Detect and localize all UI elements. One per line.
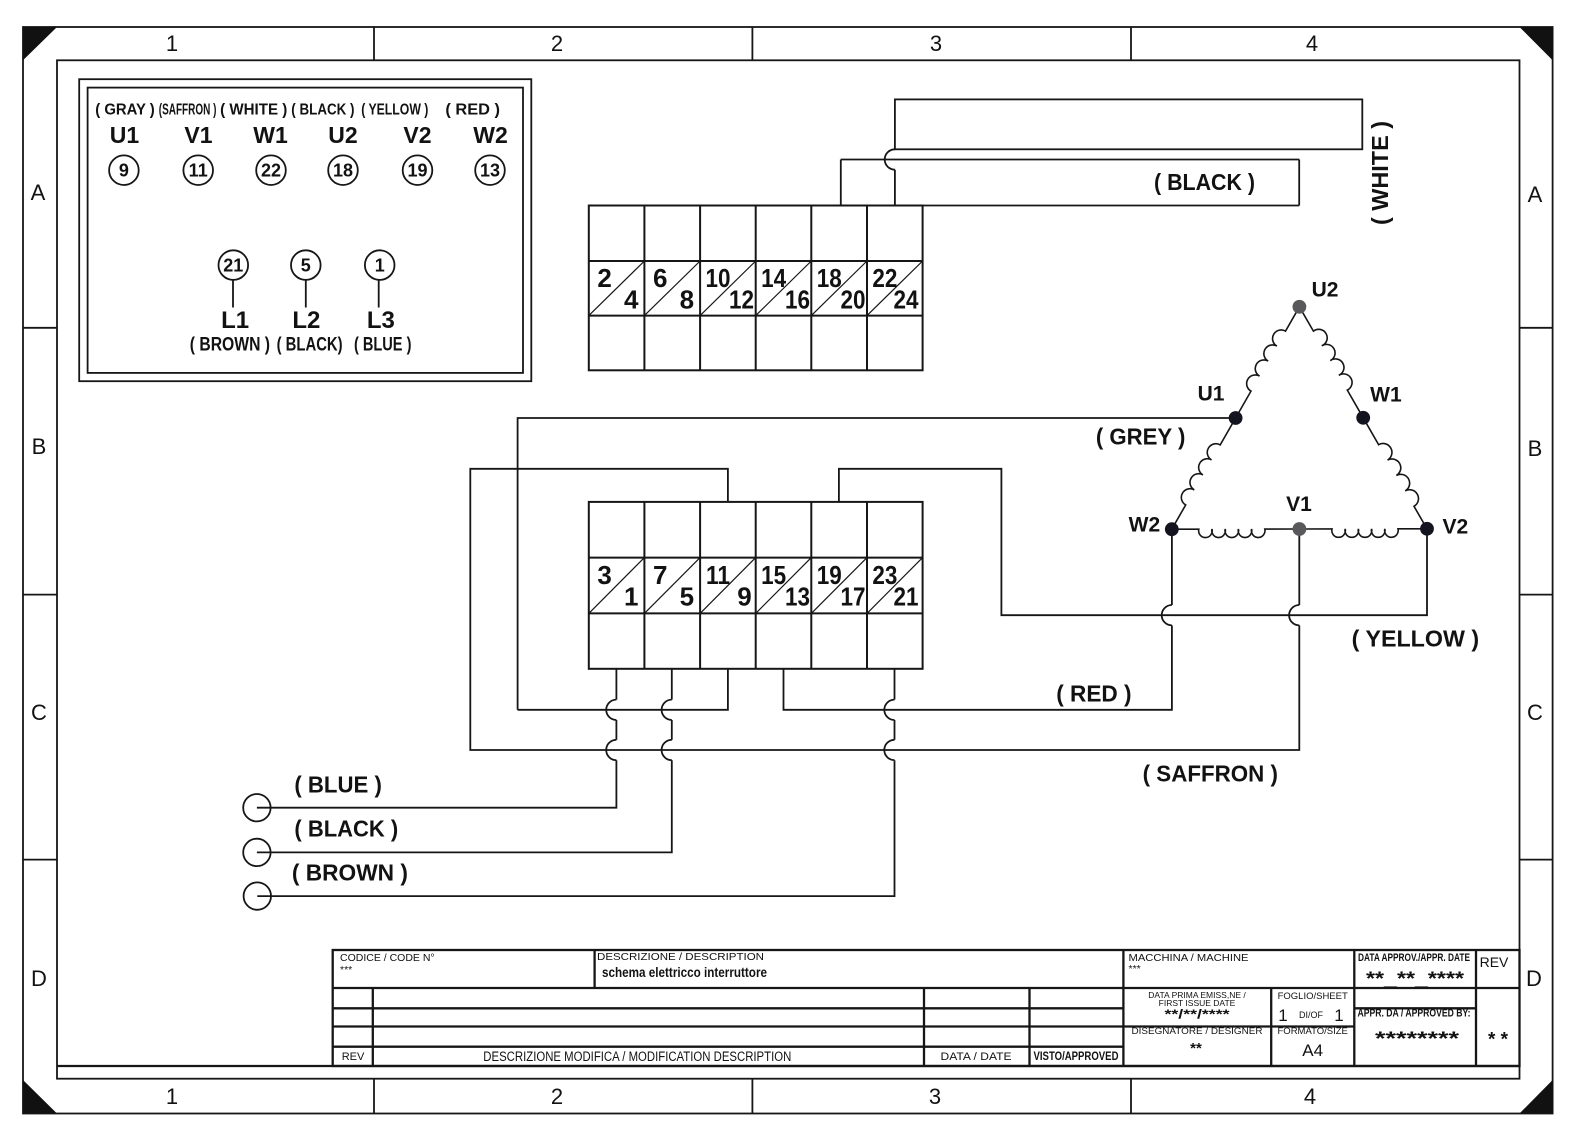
hop brown over saffron — [884, 740, 894, 760]
divider REV right column — [1475, 950, 1477, 1066]
svg-text:W1: W1 — [1370, 384, 1402, 407]
svg-text:V2: V2 — [1442, 515, 1468, 538]
DELTA MOTOR WINDING — [1172, 307, 1427, 538]
node V1 — [1293, 522, 1307, 536]
divider DATA APPROV column — [1353, 950, 1355, 1066]
svg-text:1: 1 — [1334, 1006, 1343, 1025]
svg-text:8: 8 — [680, 285, 694, 315]
svg-text:4: 4 — [624, 285, 639, 315]
svg-text:C: C — [1527, 700, 1543, 725]
terminal circle 9 — [109, 155, 139, 185]
svg-text:( YELLOW ): ( YELLOW ) — [361, 102, 428, 119]
svg-text:**_**_****: **_**_**** — [1366, 969, 1465, 990]
svg-text:W2: W2 — [1129, 513, 1161, 536]
lower strip column lines — [643, 502, 645, 669]
winding V1-V2 — [1299, 529, 1427, 538]
svg-text:**/**/****: **/**/**** — [1165, 1007, 1231, 1022]
winding U2-W1 — [1299, 307, 1363, 418]
svg-text:V2: V2 — [403, 122, 431, 148]
svg-text:MACCHINA / MACHINE: MACCHINA / MACHINE — [1129, 952, 1249, 964]
upper strip column lines — [643, 206, 645, 371]
svg-text:(SAFFRON ): (SAFFRON ) — [159, 102, 217, 119]
wire saffron: V1 down, hop, left, up, left, to lower strip col3 top — [470, 469, 1299, 750]
svg-text:( BLACK ): ( BLACK ) — [294, 816, 398, 842]
svg-text:L2: L2 — [292, 307, 320, 334]
hop blue over saffron — [606, 740, 616, 760]
terminal circle 5 — [291, 250, 321, 280]
svg-text:REV: REV — [1480, 954, 1509, 970]
svg-text:APPR. DA / APPROVED BY:: APPR. DA / APPROVED BY: — [1358, 1008, 1471, 1020]
title block narrow row lines — [333, 1007, 1124, 1009]
hop brown over red — [884, 700, 894, 720]
open terminal circle blue — [243, 794, 270, 821]
title block bottom strip line — [57, 1065, 1520, 1067]
divider DATA/DATE column — [923, 988, 925, 1066]
UPPER TERMINAL STRIP — [589, 206, 923, 371]
open terminal circle black — [243, 839, 270, 866]
svg-text:( BROWN ): ( BROWN ) — [190, 335, 270, 356]
svg-text:7: 7 — [653, 560, 667, 590]
wire black: circle to lower strip col2 bottom with hops — [257, 760, 672, 852]
svg-text:5: 5 — [301, 256, 311, 276]
zone divider ticks bottom band — [374, 1079, 1131, 1114]
svg-text:C: C — [31, 700, 47, 725]
hop black over saffron — [662, 740, 672, 760]
lower strip row lines — [589, 557, 923, 559]
svg-text:CODICE / CODE N°: CODICE / CODE N° — [340, 952, 435, 964]
TITLEBLOCK — [57, 950, 1520, 1066]
corner triangle bottom-right — [1520, 1080, 1553, 1114]
wire yellow: lower strip col5 top, up, right, down, right to V2 — [839, 469, 1427, 615]
node U1 — [1229, 411, 1243, 425]
svg-text:13: 13 — [480, 161, 500, 181]
stem L3 — [378, 280, 380, 308]
wire grey: U1 left then down — [518, 418, 1236, 710]
winding W2-U1 — [1172, 418, 1236, 529]
title block row line under CODICE row — [333, 987, 1520, 989]
hop white wire over black cable edge — [885, 149, 895, 169]
winding W1-V2 — [1363, 418, 1427, 529]
winding W2-V1 — [1172, 529, 1300, 538]
hop black over red — [662, 700, 672, 720]
svg-text:( GREY ): ( GREY ) — [1096, 424, 1186, 450]
svg-text:11: 11 — [189, 161, 208, 181]
svg-text:U2: U2 — [1312, 279, 1339, 302]
svg-text:18: 18 — [333, 161, 353, 181]
black cable loop: top edge — [841, 159, 1299, 161]
corner triangle top-right — [1520, 27, 1553, 60]
svg-text:( BLACK ): ( BLACK ) — [291, 102, 354, 119]
svg-text:A4: A4 — [1302, 1041, 1323, 1060]
svg-text:1: 1 — [166, 31, 178, 56]
svg-text:2: 2 — [551, 31, 563, 56]
svg-text:A: A — [1528, 182, 1543, 207]
divider VISTO column — [1028, 988, 1030, 1066]
svg-text:( WHITE ): ( WHITE ) — [220, 102, 287, 119]
corner triangle bottom-left — [23, 1080, 57, 1114]
divider CODICE | DESCRIZIONE — [593, 950, 595, 988]
zone divider ticks right band — [1520, 328, 1553, 860]
svg-text:U1: U1 — [1198, 383, 1225, 406]
WIRE LABELS — [292, 121, 1479, 885]
legend box inner — [88, 88, 523, 373]
svg-text:18: 18 — [817, 263, 842, 293]
svg-text:V1: V1 — [1286, 493, 1312, 516]
wire brown: circle to lower strip col6 bottom with hops — [257, 760, 894, 896]
corner triangle top-left — [23, 27, 57, 60]
svg-text:( BLACK ): ( BLACK ) — [1154, 169, 1255, 195]
LOWER TERMINAL STRIP — [589, 502, 923, 669]
svg-text:9: 9 — [737, 582, 751, 612]
svg-text:19: 19 — [407, 161, 427, 181]
svg-text:DI/OF: DI/OF — [1299, 1010, 1324, 1020]
svg-text:24: 24 — [894, 285, 919, 315]
divider REV column — [372, 988, 374, 1066]
terminal circle 22 — [256, 155, 286, 185]
divider under DATA APPROV cell — [1354, 1007, 1476, 1009]
divider FOGLIO column — [1270, 988, 1272, 1066]
svg-text:********: ******** — [1375, 1029, 1460, 1050]
svg-text:***: *** — [1129, 963, 1141, 975]
terminal circle 1 — [365, 250, 395, 280]
svg-text:**: ** — [1190, 1040, 1202, 1057]
stem L2 — [305, 280, 307, 308]
svg-text:B: B — [32, 434, 47, 459]
svg-text:DISEGNATORE / DESIGNER: DISEGNATORE / DESIGNER — [1132, 1026, 1263, 1037]
svg-text:( WHITE ): ( WHITE ) — [1367, 121, 1393, 225]
node U2 — [1293, 300, 1307, 314]
svg-text:1: 1 — [1278, 1006, 1287, 1025]
node W1 — [1356, 411, 1370, 425]
svg-text:1: 1 — [375, 256, 385, 276]
svg-text:3: 3 — [597, 560, 611, 590]
svg-text:3: 3 — [929, 1084, 941, 1109]
svg-text:D: D — [1526, 966, 1542, 991]
svg-text:12: 12 — [729, 285, 754, 315]
svg-text:VISTO/APPROVED: VISTO/APPROVED — [1034, 1051, 1119, 1063]
svg-text:16: 16 — [785, 285, 810, 315]
open terminal circle brown — [244, 882, 271, 909]
wire white vertical from upper strip col6 to loop — [894, 170, 896, 206]
svg-text:A: A — [31, 180, 46, 205]
legend color row — [95, 102, 500, 119]
svg-text:REV: REV — [342, 1051, 365, 1063]
svg-text:( RED ): ( RED ) — [445, 102, 500, 119]
svg-text:B: B — [1528, 436, 1543, 461]
black cable loop: left edge (wire from upper strip col5) — [840, 160, 842, 206]
terminal circle 11 — [183, 155, 213, 185]
svg-text:9: 9 — [119, 161, 129, 181]
wire blue: circle to lower strip col1 bottom with hops — [257, 760, 617, 808]
svg-text:DESCRIZIONE MODIFICA / MODIFIC: DESCRIZIONE MODIFICA / MODIFICATION DESC… — [483, 1049, 791, 1064]
svg-text:DESCRIZIONE / DESCRIPTION: DESCRIZIONE / DESCRIPTION — [597, 951, 764, 963]
node W2 — [1165, 522, 1179, 536]
svg-text:W1: W1 — [253, 122, 288, 148]
svg-text:FOGLIO/SHEET: FOGLIO/SHEET — [1278, 991, 1348, 1002]
zone divider ticks top band — [374, 27, 1131, 60]
svg-text:21: 21 — [223, 256, 243, 276]
stem L1 — [232, 280, 234, 308]
svg-text:1: 1 — [166, 1084, 178, 1109]
lower strip outline — [589, 502, 923, 669]
svg-text:11: 11 — [706, 560, 730, 590]
svg-text:15: 15 — [761, 560, 786, 590]
white cable loop rectangle — [895, 99, 1362, 149]
wire red left segment: grey vertical to lower strip col3 bottom — [518, 669, 728, 710]
upper strip row lines — [589, 260, 923, 262]
svg-text:D: D — [31, 966, 47, 991]
svg-text:10: 10 — [706, 263, 731, 293]
black cable loop: bottom edge — [923, 205, 1300, 207]
upper strip diagonals — [589, 261, 645, 316]
svg-text:U2: U2 — [328, 122, 357, 148]
svg-text:( GRAY ): ( GRAY ) — [95, 102, 155, 119]
svg-text:DATA APPROV./APPR. DATE: DATA APPROV./APPR. DATE — [1358, 952, 1470, 964]
terminal circle 13 — [475, 155, 505, 185]
zone divider ticks left band — [23, 328, 57, 860]
svg-text:( BLACK): ( BLACK) — [277, 335, 343, 356]
svg-text:L3: L3 — [367, 307, 395, 334]
svg-text:21: 21 — [894, 582, 919, 612]
svg-text:1: 1 — [624, 582, 638, 612]
divider MACCHINA column — [1122, 950, 1124, 1066]
terminal circle 21 — [219, 250, 249, 280]
svg-text:L1: L1 — [221, 307, 249, 334]
svg-text:* *: * * — [1488, 1030, 1509, 1051]
svg-text:6: 6 — [653, 263, 667, 293]
wire V1 vertical upper part — [1298, 529, 1300, 605]
hop blue over red — [606, 700, 616, 720]
upper strip outline — [589, 206, 923, 371]
svg-text:20: 20 — [841, 285, 866, 315]
svg-text:( BLUE ): ( BLUE ) — [354, 335, 412, 356]
svg-text:2: 2 — [597, 263, 611, 293]
svg-text:( RED ): ( RED ) — [1056, 680, 1131, 706]
terminal circle 19 — [403, 155, 433, 185]
svg-text:DATA / DATE: DATA / DATE — [941, 1051, 1012, 1063]
svg-text:***: *** — [340, 964, 352, 976]
svg-text:2: 2 — [551, 1084, 563, 1109]
svg-text:V1: V1 — [184, 122, 212, 148]
black cable loop: right edge — [1298, 160, 1300, 206]
svg-text:( BROWN ): ( BROWN ) — [292, 859, 408, 885]
svg-text:14: 14 — [761, 263, 786, 293]
title block outline — [333, 950, 1520, 1066]
svg-text:schema elettricco interruttore: schema elettricco interruttore — [602, 965, 767, 980]
winding U1-U2 — [1236, 307, 1300, 418]
svg-text:13: 13 — [785, 582, 810, 612]
svg-text:FORMATO/SIZE: FORMATO/SIZE — [1278, 1026, 1348, 1037]
svg-text:( SAFFRON ): ( SAFFRON ) — [1143, 761, 1278, 787]
svg-text:U1: U1 — [110, 122, 140, 148]
svg-text:17: 17 — [841, 582, 866, 612]
svg-text:4: 4 — [1304, 1084, 1316, 1109]
terminal circle 18 — [328, 155, 358, 185]
hop V1 wire over yellow — [1289, 605, 1299, 625]
svg-text:19: 19 — [817, 560, 842, 590]
svg-text:22: 22 — [261, 161, 281, 181]
hop W2 wire over yellow — [1162, 605, 1172, 625]
wire W2 vertical upper part — [1171, 529, 1173, 605]
legend box outer — [79, 79, 531, 381]
svg-text:5: 5 — [680, 582, 694, 612]
node V2 — [1420, 522, 1434, 536]
lower strip diagonals — [589, 558, 645, 614]
svg-text:( YELLOW ): ( YELLOW ) — [1352, 625, 1479, 651]
svg-text:( BLUE ): ( BLUE ) — [294, 772, 382, 798]
svg-text:W2: W2 — [473, 122, 508, 148]
svg-text:4: 4 — [1306, 31, 1318, 56]
svg-text:3: 3 — [930, 31, 942, 56]
wire red right segment: W2 down, hop, left, up to lower strip col4 — [784, 625, 1172, 709]
